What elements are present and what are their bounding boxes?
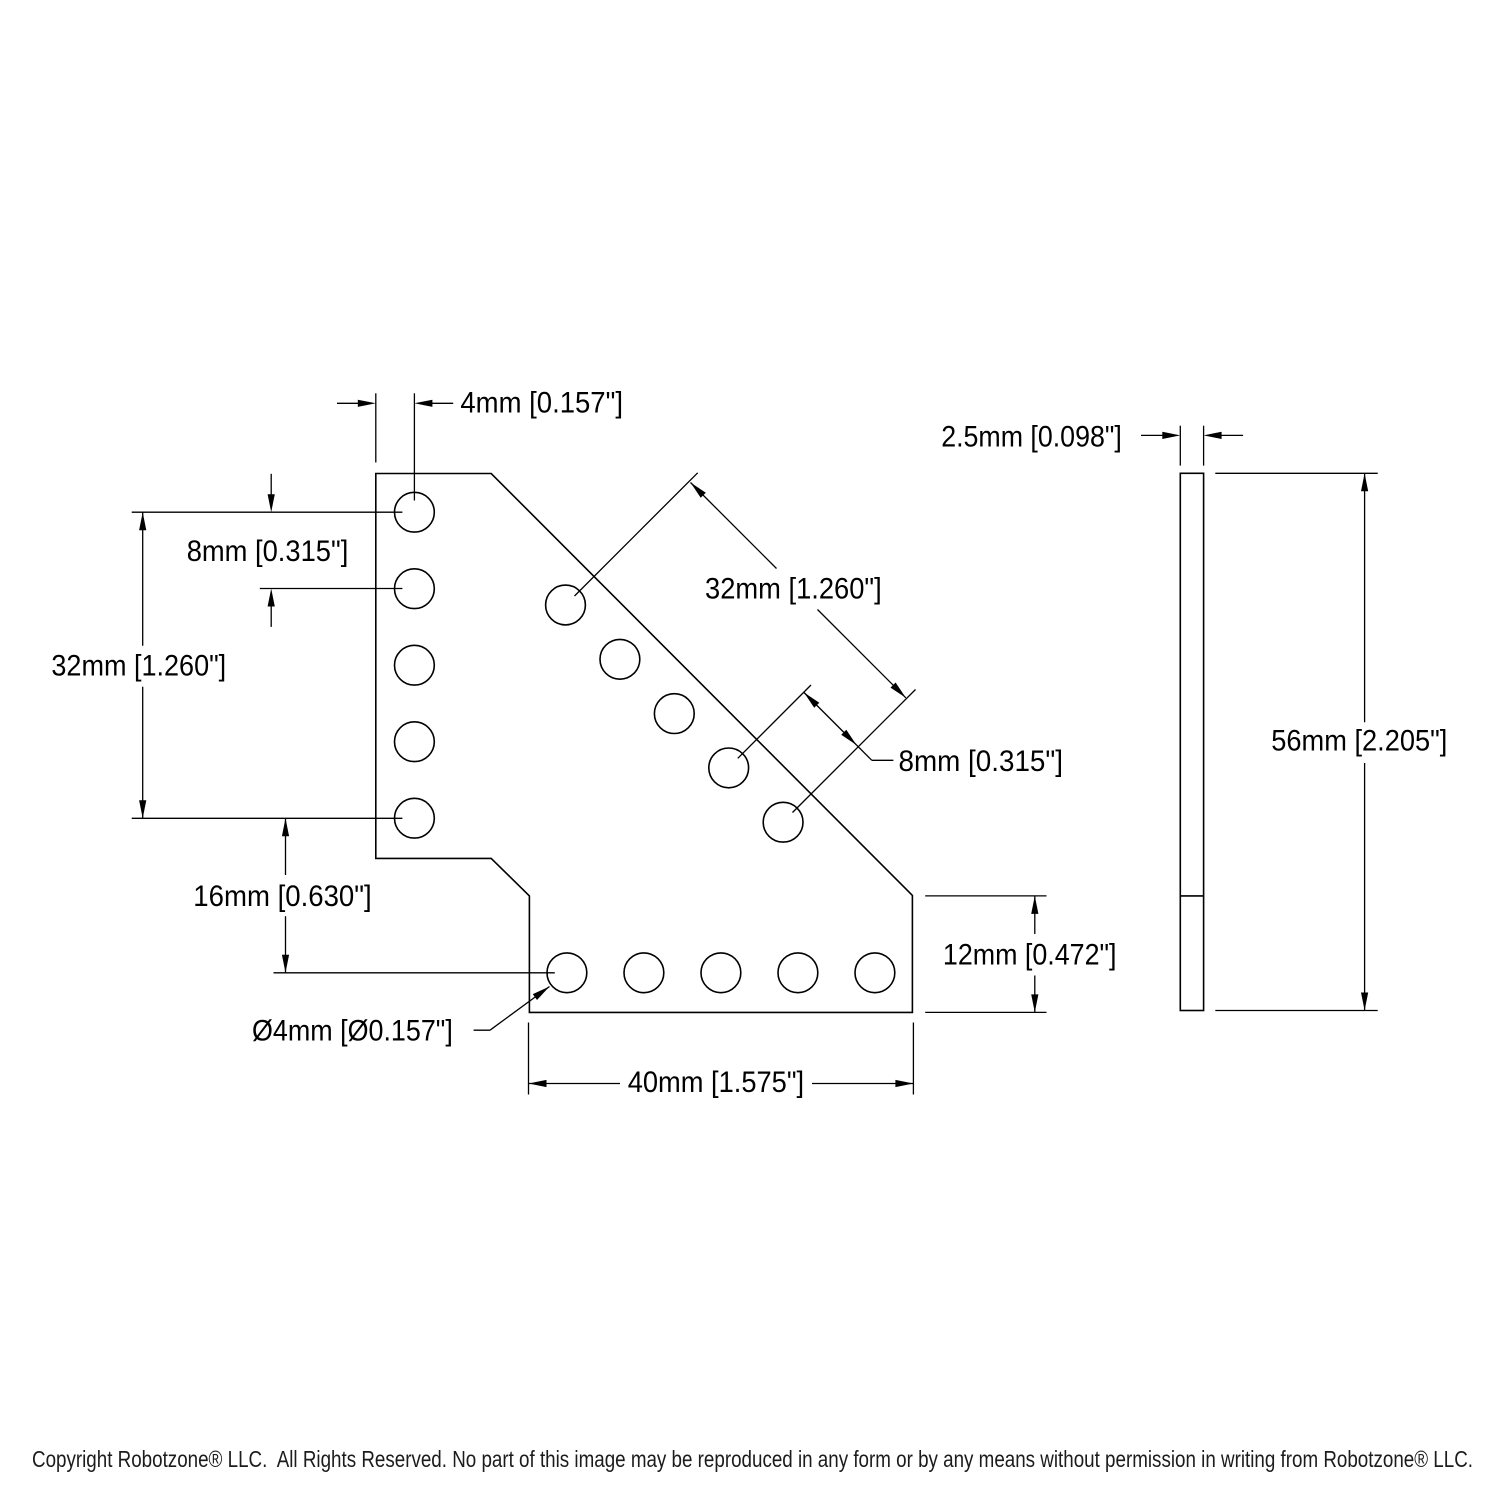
- svg-text:8mm [0.315"]: 8mm [0.315"]: [187, 535, 349, 568]
- svg-text:32mm [1.260"]: 32mm [1.260"]: [51, 649, 226, 682]
- svg-text:8mm [0.315"]: 8mm [0.315"]: [899, 745, 1064, 778]
- svg-text:Copyright Robotzone® LLC. All: Copyright Robotzone® LLC. All Rights Res…: [32, 1446, 1473, 1472]
- svg-text:32mm [1.260"]: 32mm [1.260"]: [705, 572, 882, 605]
- svg-text:56mm [2.205"]: 56mm [2.205"]: [1271, 724, 1447, 757]
- svg-text:4mm [0.157"]: 4mm [0.157"]: [460, 386, 623, 419]
- svg-text:40mm [1.575"]: 40mm [1.575"]: [628, 1066, 804, 1099]
- svg-text:12mm [0.472"]: 12mm [0.472"]: [943, 939, 1117, 972]
- svg-text:Ø4mm [Ø0.157"]: Ø4mm [Ø0.157"]: [252, 1014, 453, 1047]
- svg-text:2.5mm [0.098"]: 2.5mm [0.098"]: [941, 421, 1122, 454]
- svg-text:16mm [0.630"]: 16mm [0.630"]: [193, 880, 371, 913]
